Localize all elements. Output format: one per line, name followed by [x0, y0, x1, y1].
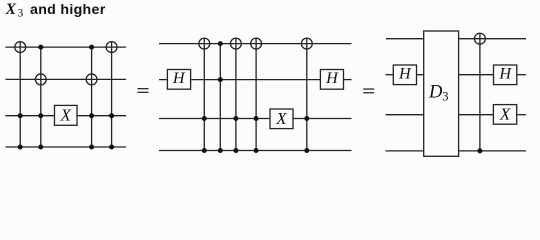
svg-text:3: 3: [442, 89, 448, 103]
svg-text:D: D: [428, 83, 443, 103]
control dot c1 col1 wire3: [18, 113, 23, 118]
control line col5: [111, 42, 113, 147]
svg-text:and higher: and higher: [30, 2, 106, 18]
wire q1: [6, 46, 127, 48]
wire q1 right: [459, 38, 526, 40]
control dot c2 colD wire4: [254, 148, 259, 153]
wire q1: [159, 43, 352, 45]
H gate box circuit3 right: [494, 65, 517, 85]
control dot c1 col2 wire4: [38, 145, 43, 150]
control dot c1 col2 wire1: [38, 45, 43, 50]
svg-text:H: H: [325, 69, 339, 87]
control dot c1 col5 wire3: [109, 113, 114, 118]
H gate box circuit3 left: [393, 65, 416, 85]
control dot c2 colE wire4: [304, 148, 309, 153]
wire q1 left: [386, 38, 424, 40]
target XOR c3 wire1: [474, 33, 485, 44]
control colB wire2: [218, 77, 223, 82]
control line: [479, 33, 481, 150]
control line colE: [306, 38, 308, 151]
control line colA: [203, 38, 205, 151]
X gate box circuit3: [493, 104, 516, 124]
target XOR c1 col4 wire2: [86, 74, 97, 85]
control dot c2 colC wire3: [233, 116, 238, 121]
H gate box circuit2 left: [167, 69, 190, 89]
wire q3 segmented around X box: [159, 118, 270, 120]
svg-text:3: 3: [18, 8, 24, 20]
target XOR c1 col5 wire1: [106, 42, 117, 53]
control dot c1 col4 wire1: [89, 45, 94, 50]
control line colB: [219, 44, 221, 151]
wire q4: [6, 146, 127, 148]
X gate box circuit1: [55, 105, 78, 125]
equals sign 1: [138, 88, 149, 93]
svg-text:X: X: [499, 104, 511, 123]
X gate box circuit2: [270, 109, 293, 129]
target XOR c1 col1 wire1: [15, 42, 26, 53]
control dot c1 col1 wire4: [18, 145, 23, 150]
target XOR c2 colC wire1: [230, 38, 241, 49]
wire q2 left stubs: [386, 74, 394, 76]
control line colD: [255, 38, 257, 151]
target XOR c2 colE wire1: [301, 38, 312, 49]
svg-text:X: X: [5, 1, 17, 18]
svg-text:H: H: [498, 65, 512, 83]
control line colC: [235, 38, 237, 151]
wire q3 right stubs: [459, 114, 494, 116]
svg-text:H: H: [172, 69, 186, 87]
svg-text:X: X: [60, 106, 72, 125]
control dot c1 col5 wire4: [109, 145, 114, 150]
svg-text:X: X: [275, 109, 287, 128]
target XOR c1 col2 wire2: [35, 74, 46, 85]
wire q4 right: [459, 150, 526, 152]
control colB wire1: [218, 41, 223, 46]
wire q2 segmented around H boxes: [159, 79, 167, 81]
wire q3 left: [386, 114, 424, 116]
control dot c2 colB wire4: [218, 148, 223, 153]
control dot c2 colE wire3: [304, 116, 309, 121]
wire q4 left: [386, 150, 424, 152]
wire q2 right stubs: [459, 74, 494, 76]
wire q2: [6, 78, 127, 80]
control dot c2 colA wire3: [202, 116, 207, 121]
target XOR c2 colD wire1: [251, 38, 262, 49]
control dot c1 col2 wire3: [38, 113, 43, 118]
target XOR c2 colA wire1: [199, 38, 210, 49]
control dot c2 colA wire4: [202, 148, 207, 153]
control dot c1 col4 wire4: [89, 145, 94, 150]
control line col1: [19, 42, 21, 147]
control dot c1 col4 wire3: [89, 113, 94, 118]
wire q4: [159, 150, 352, 152]
control dot c3 wire4: [477, 148, 482, 153]
svg-text:H: H: [398, 65, 412, 83]
equals sign 2: [363, 88, 374, 93]
control dot c2 colC wire4: [233, 148, 238, 153]
title X_3 and higher: [5, 1, 106, 20]
H gate box circuit2 right: [320, 69, 343, 89]
control dot c2 colD wire3: [254, 116, 259, 121]
control line col4: [91, 47, 93, 147]
control line col2: [40, 47, 42, 147]
D3 box: [424, 31, 459, 156]
wire q3: [6, 115, 55, 117]
